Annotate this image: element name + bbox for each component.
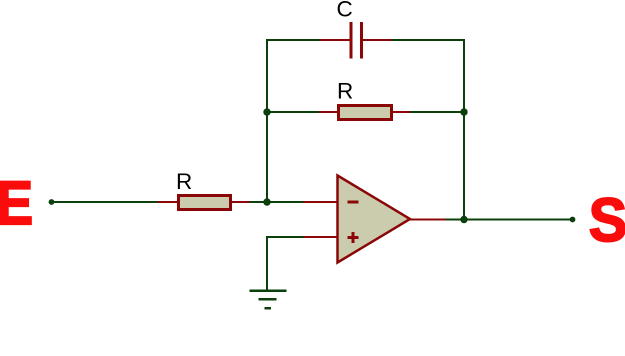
- wire lead to op-amp minus input: [303, 201, 338, 203]
- node E terminal: [49, 199, 55, 205]
- wire lead to op-amp plus input: [303, 236, 338, 238]
- wire output to S: [446, 219, 573, 221]
- svg-text:R: R: [176, 169, 192, 194]
- node junction left feedback: [263, 108, 270, 115]
- wire mid feedback left: [267, 111, 320, 113]
- svg-text:C: C: [337, 0, 353, 22]
- wire R1 to inverting input node: [250, 201, 304, 203]
- node A junction inverting input: [263, 198, 270, 205]
- node S terminal: [570, 217, 576, 223]
- svg-text:S: S: [589, 185, 625, 254]
- wire input E to R1: [52, 201, 160, 203]
- resistor R1: [158, 196, 250, 210]
- resistor R2 label R: [337, 79, 353, 104]
- svg-text:R: R: [337, 79, 353, 104]
- wire plus input to ground: [267, 237, 304, 291]
- resistor R1 label R: [176, 169, 192, 194]
- ground: [250, 291, 287, 309]
- resistor R2 feedback: [319, 106, 411, 120]
- capacitor C: [320, 22, 392, 59]
- label E: [0, 170, 33, 238]
- label C: [337, 0, 353, 22]
- node junction right feedback: [460, 108, 467, 115]
- svg-text:E: E: [0, 170, 33, 238]
- wire op-amp output lead: [409, 219, 447, 221]
- wire mid feedback right: [410, 111, 464, 113]
- op-amp U1: [338, 176, 411, 263]
- wire feedback left vertical: [267, 40, 321, 202]
- node junction output: [460, 216, 467, 223]
- label S: [589, 185, 625, 254]
- wire feedback right vertical: [391, 40, 464, 220]
